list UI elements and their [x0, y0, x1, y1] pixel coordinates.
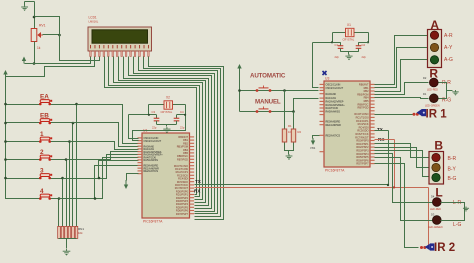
junction X1 left: [331, 41, 333, 43]
ground (R LEDs): [452, 90, 458, 93]
wire LCD line 3: [114, 57, 203, 200]
svg-text:TX: TX: [195, 179, 202, 184]
wire row 4 to U1 RE1: [95, 166, 139, 199]
wire X1 left vert: [332, 33, 334, 43]
U1 left pins: [138, 137, 143, 174]
svg-text:2: 2: [40, 149, 44, 156]
svg-text:L-G: L-G: [453, 222, 461, 228]
svg-text:A-G: A-G: [444, 57, 453, 63]
ground (L LEDs): [463, 207, 469, 210]
junction R2: [292, 110, 295, 113]
svg-text:C4: C4: [180, 110, 184, 114]
wire LCD VDD to left bus: [6, 57, 95, 77]
U1 pin name texts: [144, 136, 189, 216]
traffic light B: [429, 152, 444, 185]
svg-text:U3: U3: [325, 77, 329, 81]
wire AUTOMATIC row: [240, 90, 319, 92]
svg-text:RE2/AN7/CS: RE2/AN7/CS: [144, 170, 159, 173]
junction R1 top: [283, 89, 286, 92]
wire row 1 down to RN1: [69, 142, 71, 227]
svg-text:D1: D1: [423, 92, 427, 96]
svg-text:1k: 1k: [37, 46, 41, 50]
wire X2 left vert: [148, 105, 150, 115]
indicator IR2 red dots: [420, 246, 423, 249]
wire U3 to LED D3: [375, 158, 433, 221]
wire RV1 top: [34, 2, 36, 29]
U3 pin name texts: [326, 84, 370, 166]
LCD pin name labels: [90, 45, 149, 48]
wire RX long (red): [195, 187, 429, 189]
wire switch bus: [239, 71, 241, 112]
wire D1 cathode: [439, 91, 447, 99]
capacitor C1: [338, 42, 344, 52]
svg-text:X2: X2: [166, 96, 170, 100]
wire ground to RV1 top: [25, 1, 35, 3]
svg-text:X1: X1: [347, 23, 351, 27]
wire row EA to U1 pin: [77, 105, 139, 144]
capacitor C4: [174, 115, 180, 125]
power symbol (U3 MCLR): [312, 138, 314, 143]
svg-text:4: 4: [40, 188, 44, 195]
wire row EA to pull resistor: [50, 104, 77, 106]
svg-text:3: 3: [40, 167, 44, 174]
resistor R1: [282, 129, 286, 142]
indicator IR1 red dots: [413, 113, 416, 116]
wire to ground R LEDs: [447, 90, 453, 92]
wire X2 loop top: [149, 104, 186, 106]
svg-text:C2: C2: [362, 43, 366, 47]
wire to OSC1 pin: [129, 115, 139, 139]
power +5V (switches): [239, 66, 241, 71]
svg-text:CRYSTAL: CRYSTAL: [161, 110, 173, 114]
wire row 3 to pull resistor: [50, 178, 63, 180]
wire LCD line 6: [129, 57, 212, 209]
wire U3 to LED D4: [375, 154, 433, 203]
IR2 blue probe: [425, 244, 430, 251]
svg-text:RB7/PGD: RB7/PGD: [358, 107, 369, 110]
svg-text:B-Y: B-Y: [448, 167, 457, 173]
wire MANUEL row: [240, 99, 319, 112]
wire up to U3 RX (red): [394, 140, 396, 188]
wire U3 to A light 3: [375, 60, 429, 92]
wire row 4 from bus: [6, 198, 41, 200]
wire RV1 bottom: [34, 42, 36, 64]
wire RV1 to LCD VEE pin 3: [35, 17, 100, 61]
wire D2 cathode: [439, 83, 447, 91]
svg-text:RV1: RV1: [39, 24, 46, 28]
LED D4 LED-RED: [432, 198, 441, 207]
wire X2 gnd stub: [166, 125, 168, 127]
wire R1 top: [284, 91, 286, 129]
svg-text:OSC2/CLKOUT: OSC2/CLKOUT: [144, 140, 162, 143]
wire row EB down to RN1: [72, 123, 74, 227]
wire ground stub: [24, 2, 26, 6]
junction bus row 2: [4, 158, 7, 161]
junction X2 right: [184, 114, 186, 116]
junction row 3 RE0: [98, 177, 101, 180]
svg-text:LED-RED: LED-RED: [430, 208, 441, 211]
wire row 3 down to RN1: [62, 179, 64, 227]
svg-text:10k: 10k: [78, 231, 83, 235]
wire LCD line 9: [144, 57, 221, 217]
wire to ground R1R2: [288, 151, 290, 155]
push button 3: [39, 174, 52, 180]
wire LCD line 8: [139, 57, 218, 214]
wire U3 to LED D2: [375, 83, 429, 95]
wire LCD line 7: [134, 57, 215, 212]
wire row EB from bus: [6, 122, 41, 124]
svg-text:RD7/PSP7: RD7/PSP7: [176, 213, 189, 216]
wire TX U1 to U3 (green): [195, 184, 389, 186]
svg-text:OSC2/CLKOUT: OSC2/CLKOUT: [326, 87, 344, 90]
power +5V (left of LCD): [23, 59, 25, 64]
wire U3 TX: [375, 130, 389, 132]
LCD LCD1 LM016L: [88, 27, 152, 51]
junction bus row EA: [4, 103, 7, 106]
wire left bus vertical: [6, 78, 41, 199]
svg-text:LCD1: LCD1: [89, 16, 97, 20]
ground (R1 R2): [286, 154, 293, 157]
junction row EB: [72, 122, 75, 125]
ground (top-left): [21, 5, 28, 8]
wire LCD line 10: [149, 57, 224, 220]
wire row 1 to pull resistor: [50, 141, 70, 143]
wire C1 stub: [333, 42, 341, 44]
junction bus row 3: [4, 177, 7, 180]
wire row 3 from bus: [6, 178, 41, 180]
junction bus row 1: [4, 140, 7, 143]
wire X2 to U1 OSC1: [129, 114, 149, 116]
wire U3 to IR2: [375, 164, 419, 248]
wire row 2 to pull resistor: [50, 159, 67, 161]
svg-text:RD7/PSP7: RD7/PSP7: [356, 163, 369, 166]
svg-text:A-Y: A-Y: [444, 45, 453, 51]
junction row 3: [61, 177, 64, 180]
svg-text:B-R: B-R: [448, 156, 457, 162]
wire row 2 down to RN1: [66, 160, 68, 227]
wire U3 MCLR: [313, 136, 320, 139]
svg-text:RX: RX: [194, 189, 201, 194]
wire LCD line 5: [124, 57, 209, 206]
svg-text:MANUEL: MANUEL: [255, 99, 281, 106]
wire X1 cap bottoms: [341, 51, 359, 53]
wire row EA down to RN1: [76, 105, 78, 227]
svg-text:IR 1: IR 1: [426, 108, 448, 120]
wire row 4 to pull resistor: [50, 198, 59, 200]
junction RX: [393, 186, 395, 188]
push button EB: [39, 119, 52, 125]
wire to LCD VSS pin 1: [25, 57, 91, 64]
svg-text:1: 1: [40, 131, 44, 138]
wire LCD line 4: [119, 57, 206, 203]
crystal X1: [346, 28, 355, 36]
wire C2 stub: [359, 42, 369, 44]
LED D1 LED-GREEN: [429, 94, 438, 103]
wire row 4 down to RN1: [58, 199, 60, 227]
crystal X2: [164, 101, 173, 109]
switch AUTOMATIC: [256, 86, 272, 92]
traffic light A: [428, 30, 442, 68]
capacitor C3: [154, 115, 160, 125]
junction RV1 wiper: [58, 34, 61, 37]
svg-text:B-G: B-G: [448, 176, 457, 182]
wire X2 cap bottoms: [157, 124, 177, 126]
resistor R2: [291, 129, 295, 142]
junction bus automatic: [238, 89, 241, 92]
svg-text:IR 2: IR 2: [434, 242, 455, 254]
wire U3 to IR1: [375, 114, 413, 116]
junction row EA: [75, 103, 78, 106]
wire X1 tail to U3 OSC1: [313, 43, 319, 88]
svg-text:RA5/AN4/SS: RA5/AN4/SS: [326, 110, 341, 113]
junction row 4: [58, 197, 61, 200]
wire U3 to B light 1: [375, 144, 429, 158]
svg-text:B: B: [434, 139, 443, 153]
svg-text:D2: D2: [423, 76, 427, 80]
svg-text:RE2/AN7/CS: RE2/AN7/CS: [326, 134, 341, 137]
wire RV1 wiper: [43, 34, 60, 36]
junction X2 left: [148, 114, 150, 116]
resistor network RN1: [58, 226, 78, 238]
svg-text:C1: C1: [335, 43, 339, 47]
svg-text:22p: 22p: [335, 55, 340, 59]
svg-text:RE1/AN6/WR: RE1/AN6/WR: [326, 124, 341, 127]
junction VEE net: [33, 16, 36, 19]
ground (X2): [163, 127, 170, 131]
push button EA: [39, 100, 52, 106]
wire U3 RX: [375, 139, 395, 141]
svg-text:22p: 22p: [152, 126, 157, 130]
junction row 2: [65, 158, 68, 161]
junction row 1: [68, 140, 71, 143]
net marker + (blue): [323, 71, 327, 75]
svg-text:PIC16F877A: PIC16F877A: [325, 169, 345, 173]
svg-text:EA: EA: [40, 93, 49, 100]
wire row 3 to U1 RE0: [99, 161, 139, 179]
wire row 1 from bus: [6, 141, 41, 143]
svg-text:AUTOMATIC: AUTOMATIC: [250, 73, 286, 80]
wire LCD line 1: [105, 57, 197, 195]
power symbol (U1 MCLR): [125, 180, 127, 187]
ground (below RN1): [63, 249, 71, 253]
LCD pins 1-14: [90, 51, 149, 57]
svg-text:A: A: [430, 18, 439, 32]
wire C3 stub: [149, 114, 157, 116]
wire U3 to A light 1: [375, 36, 429, 85]
svg-text:PIC16F877A: PIC16F877A: [143, 220, 163, 224]
wire row EB to pull resistor: [50, 122, 73, 124]
svg-text:A-R: A-R: [444, 33, 453, 39]
push button 4: [39, 194, 52, 200]
microcontroller U3 PIC16F877A: [324, 81, 370, 167]
wire L LEDs common: [441, 203, 465, 221]
power +5V (left bus): [5, 72, 7, 78]
svg-text:VSS: VSS: [310, 146, 315, 150]
svg-text:TX: TX: [377, 127, 384, 132]
wire LCD line 2: [109, 57, 200, 197]
wire X1 gnd stub: [348, 52, 350, 55]
wire X1 right vert: [368, 33, 370, 43]
svg-text:LED-GREEN: LED-GREEN: [428, 226, 443, 229]
switch MANUEL: [256, 107, 272, 113]
push button 2: [39, 155, 52, 161]
wire up to U3 TX: [388, 131, 390, 185]
capacitor C2: [356, 42, 362, 52]
microcontroller U1 PIC16F877A: [142, 133, 190, 218]
junction RV1 bottom: [33, 62, 36, 65]
svg-text:LED-RED: LED-RED: [427, 89, 438, 92]
svg-text:RA0/AN0: RA0/AN0: [326, 93, 337, 96]
svg-text:LED-GREEN: LED-GREEN: [425, 104, 440, 107]
U1 right pins: [190, 136, 195, 214]
ground (X1): [345, 54, 352, 58]
svg-text:22p: 22p: [180, 126, 185, 130]
junction bus row EB: [4, 122, 7, 125]
wire row 1 to U1 pin: [70, 142, 139, 150]
wire row 4 to U1 pin: [59, 158, 139, 199]
wire RN1 commons: [59, 238, 77, 240]
potentiometer RV1: [31, 29, 43, 42]
wire RN1 to ground: [66, 239, 68, 249]
U3 left pins: [320, 84, 325, 152]
wire U1 MCLR: [127, 174, 139, 181]
svg-text:R1: R1: [288, 124, 292, 128]
wire U3 to A light 2: [375, 48, 429, 88]
wire row EA from bus: [6, 104, 41, 106]
wire row EB to U1 pin: [73, 123, 139, 147]
svg-text:LM016L: LM016L: [89, 20, 99, 24]
push button 1: [39, 137, 52, 143]
wire red down to IR2: [428, 188, 430, 248]
svg-text:D3: D3: [431, 213, 435, 217]
wire X1 loop top: [333, 32, 369, 34]
wire row 3 to U1 pin: [63, 155, 139, 179]
svg-text:CRYSTAL: CRYSTAL: [343, 38, 355, 42]
svg-text:R2: R2: [298, 130, 302, 134]
wire R1 R2 bottoms: [285, 143, 294, 151]
svg-text:RA5/AN4/SS: RA5/AN4/SS: [144, 159, 159, 162]
junction TX: [387, 184, 389, 186]
wire X1 to OSC: [313, 42, 333, 44]
wire U3 to LED D1: [375, 98, 429, 99]
wire row 2 to U1 pin: [67, 152, 139, 160]
svg-text:22p: 22p: [362, 55, 367, 59]
wire U3 to B light 3: [375, 151, 429, 177]
svg-text:D4: D4: [431, 195, 435, 199]
IR1 blue probe: [417, 109, 422, 116]
wire R2 top: [293, 112, 295, 129]
svg-text:EB: EB: [40, 112, 49, 119]
wire C4 stub: [177, 114, 186, 116]
wire X2 right vert: [185, 105, 187, 115]
wire U3 to B light 2: [375, 148, 429, 168]
svg-text:C3: C3: [152, 110, 156, 114]
junction row 4 RE1: [94, 197, 97, 200]
junction X1 right: [367, 41, 369, 43]
U3 right pins: [370, 84, 375, 164]
LED D3 LED-GREEN: [432, 216, 441, 225]
wire row 2 from bus: [6, 159, 41, 161]
wire X2 right to OSC2 pin: [133, 115, 186, 141]
svg-text:RB7/PGD: RB7/PGD: [177, 158, 188, 161]
LED D2 LED-RED: [429, 78, 438, 87]
